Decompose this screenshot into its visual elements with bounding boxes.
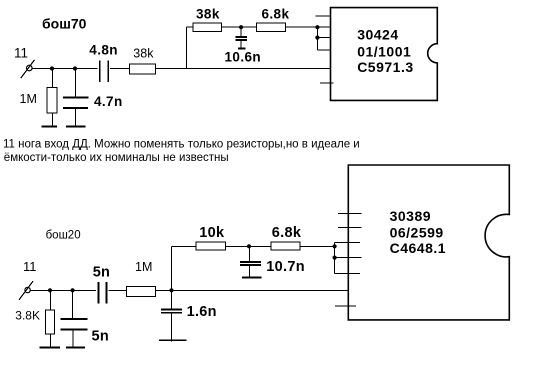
pin IC2 y213.6 (nc) <box>338 213 362 215</box>
capacitor 10.7n <box>248 246 250 262</box>
ground (below 1.6n) <box>159 339 186 341</box>
capacitor 10.6n <box>240 27 242 37</box>
svg-text:5n: 5n <box>92 329 110 345</box>
wire IC2 tie vertical <box>334 242 336 273</box>
node junction dot B5 <box>333 244 337 248</box>
wire main B left <box>30 289 96 291</box>
resistor 6.8k (top row) <box>257 23 286 32</box>
svg-text:01/1001: 01/1001 <box>357 43 411 59</box>
wire main A left <box>32 68 97 70</box>
svg-text:4.7n: 4.7n <box>94 94 123 109</box>
svg-text:6.8k: 6.8k <box>272 225 302 241</box>
svg-text:38k: 38k <box>133 47 154 61</box>
svg-text:30424: 30424 <box>357 27 398 43</box>
wire IC1 pin row y50.1 <box>317 49 330 51</box>
ground (below 3.8K) <box>40 346 61 348</box>
resistor 1M (bottom, horizontal) <box>127 286 156 296</box>
node junction dot A4 <box>315 25 319 29</box>
svg-text:бош20: бош20 <box>46 230 81 242</box>
resistor 6.8k (bottom row) <box>271 242 300 250</box>
svg-text:10.6n: 10.6n <box>225 50 262 65</box>
resistor 10k <box>196 242 225 250</box>
IC U2 30389 <box>348 165 509 320</box>
svg-text:30389: 30389 <box>390 208 431 224</box>
ground (below 5n shunt) <box>66 346 85 348</box>
node junction dot A2 <box>73 66 77 70</box>
svg-text:3.8K: 3.8K <box>15 308 40 322</box>
wire riser A <box>186 27 188 68</box>
svg-text:1M: 1M <box>20 92 37 106</box>
ground (below 4.7n) <box>66 125 85 127</box>
capacitor 1.6n <box>171 290 173 309</box>
svg-text:1M: 1M <box>135 260 152 274</box>
svg-text:5n: 5n <box>93 264 111 280</box>
svg-text:C5971.3: C5971.3 <box>357 59 413 75</box>
node junction dot B6 <box>333 256 337 260</box>
node junction dot A1 <box>50 66 54 70</box>
svg-text:10k: 10k <box>199 225 225 241</box>
resistor 38k (bottom row) <box>130 64 156 74</box>
wire IC2 pin row y257.6 <box>335 257 362 259</box>
wire IC2 pin row y242.4 <box>335 241 360 243</box>
wire IC1 pin row y37.6 <box>317 37 330 39</box>
IC U1 30424 <box>331 8 438 101</box>
resistor 3.8K (vertical) <box>49 290 51 310</box>
pin IC2 y227.5 (nc) <box>338 227 362 229</box>
svg-text:10.7n: 10.7n <box>266 259 305 275</box>
node junction dot B1 <box>48 288 52 292</box>
svg-text:38k: 38k <box>196 7 220 22</box>
wire IC2 pin row y273.3 <box>335 272 360 274</box>
resistor 38k (top row) <box>193 23 222 32</box>
input terminal J2 <box>25 287 30 292</box>
svg-text:бош70: бош70 <box>42 16 87 32</box>
pin IC1 bottom (nc) <box>320 82 334 84</box>
resistor 1M (top, vertical) <box>51 69 53 88</box>
svg-text:4.8n: 4.8n <box>89 42 118 57</box>
svg-text:1.6n: 1.6n <box>187 304 217 320</box>
ground (below 1M) <box>42 125 57 127</box>
svg-text:11: 11 <box>14 46 28 61</box>
wire IC1 pin tie vertical <box>316 27 318 50</box>
svg-text:6.8k: 6.8k <box>262 7 290 22</box>
capacitor 4.7n <box>74 69 76 98</box>
wire riser B <box>171 246 173 290</box>
pin IC2 y306 (nc) <box>335 305 356 307</box>
capacitor 5n (shunt) <box>72 290 74 319</box>
wire chain A <box>187 26 331 28</box>
wire main A right <box>110 68 331 70</box>
svg-text:06/2599: 06/2599 <box>390 224 444 240</box>
pin IC1 top (nc) <box>316 15 331 17</box>
svg-text:11: 11 <box>23 259 37 274</box>
wire main B right <box>108 289 348 291</box>
node junction dot A3 <box>239 25 243 29</box>
svg-text:C4648.1: C4648.1 <box>390 240 446 256</box>
node junction dot B4 <box>247 244 251 248</box>
capacitor 4.8n (series) <box>99 60 101 82</box>
node junction dot B3 <box>169 288 173 292</box>
capacitor 5n (series) <box>97 282 99 303</box>
svg-text:11 нога вход ДД. Можно поменят: 11 нога вход ДД. Можно поменять только р… <box>3 138 360 150</box>
input terminal J1 <box>27 65 33 71</box>
wire chain B <box>172 245 335 247</box>
svg-text:ёмкости-только их номиналы не: ёмкости-только их номиналы не известны <box>4 152 229 164</box>
node junction dot A5 <box>315 36 319 40</box>
node junction dot B2 <box>71 288 75 292</box>
